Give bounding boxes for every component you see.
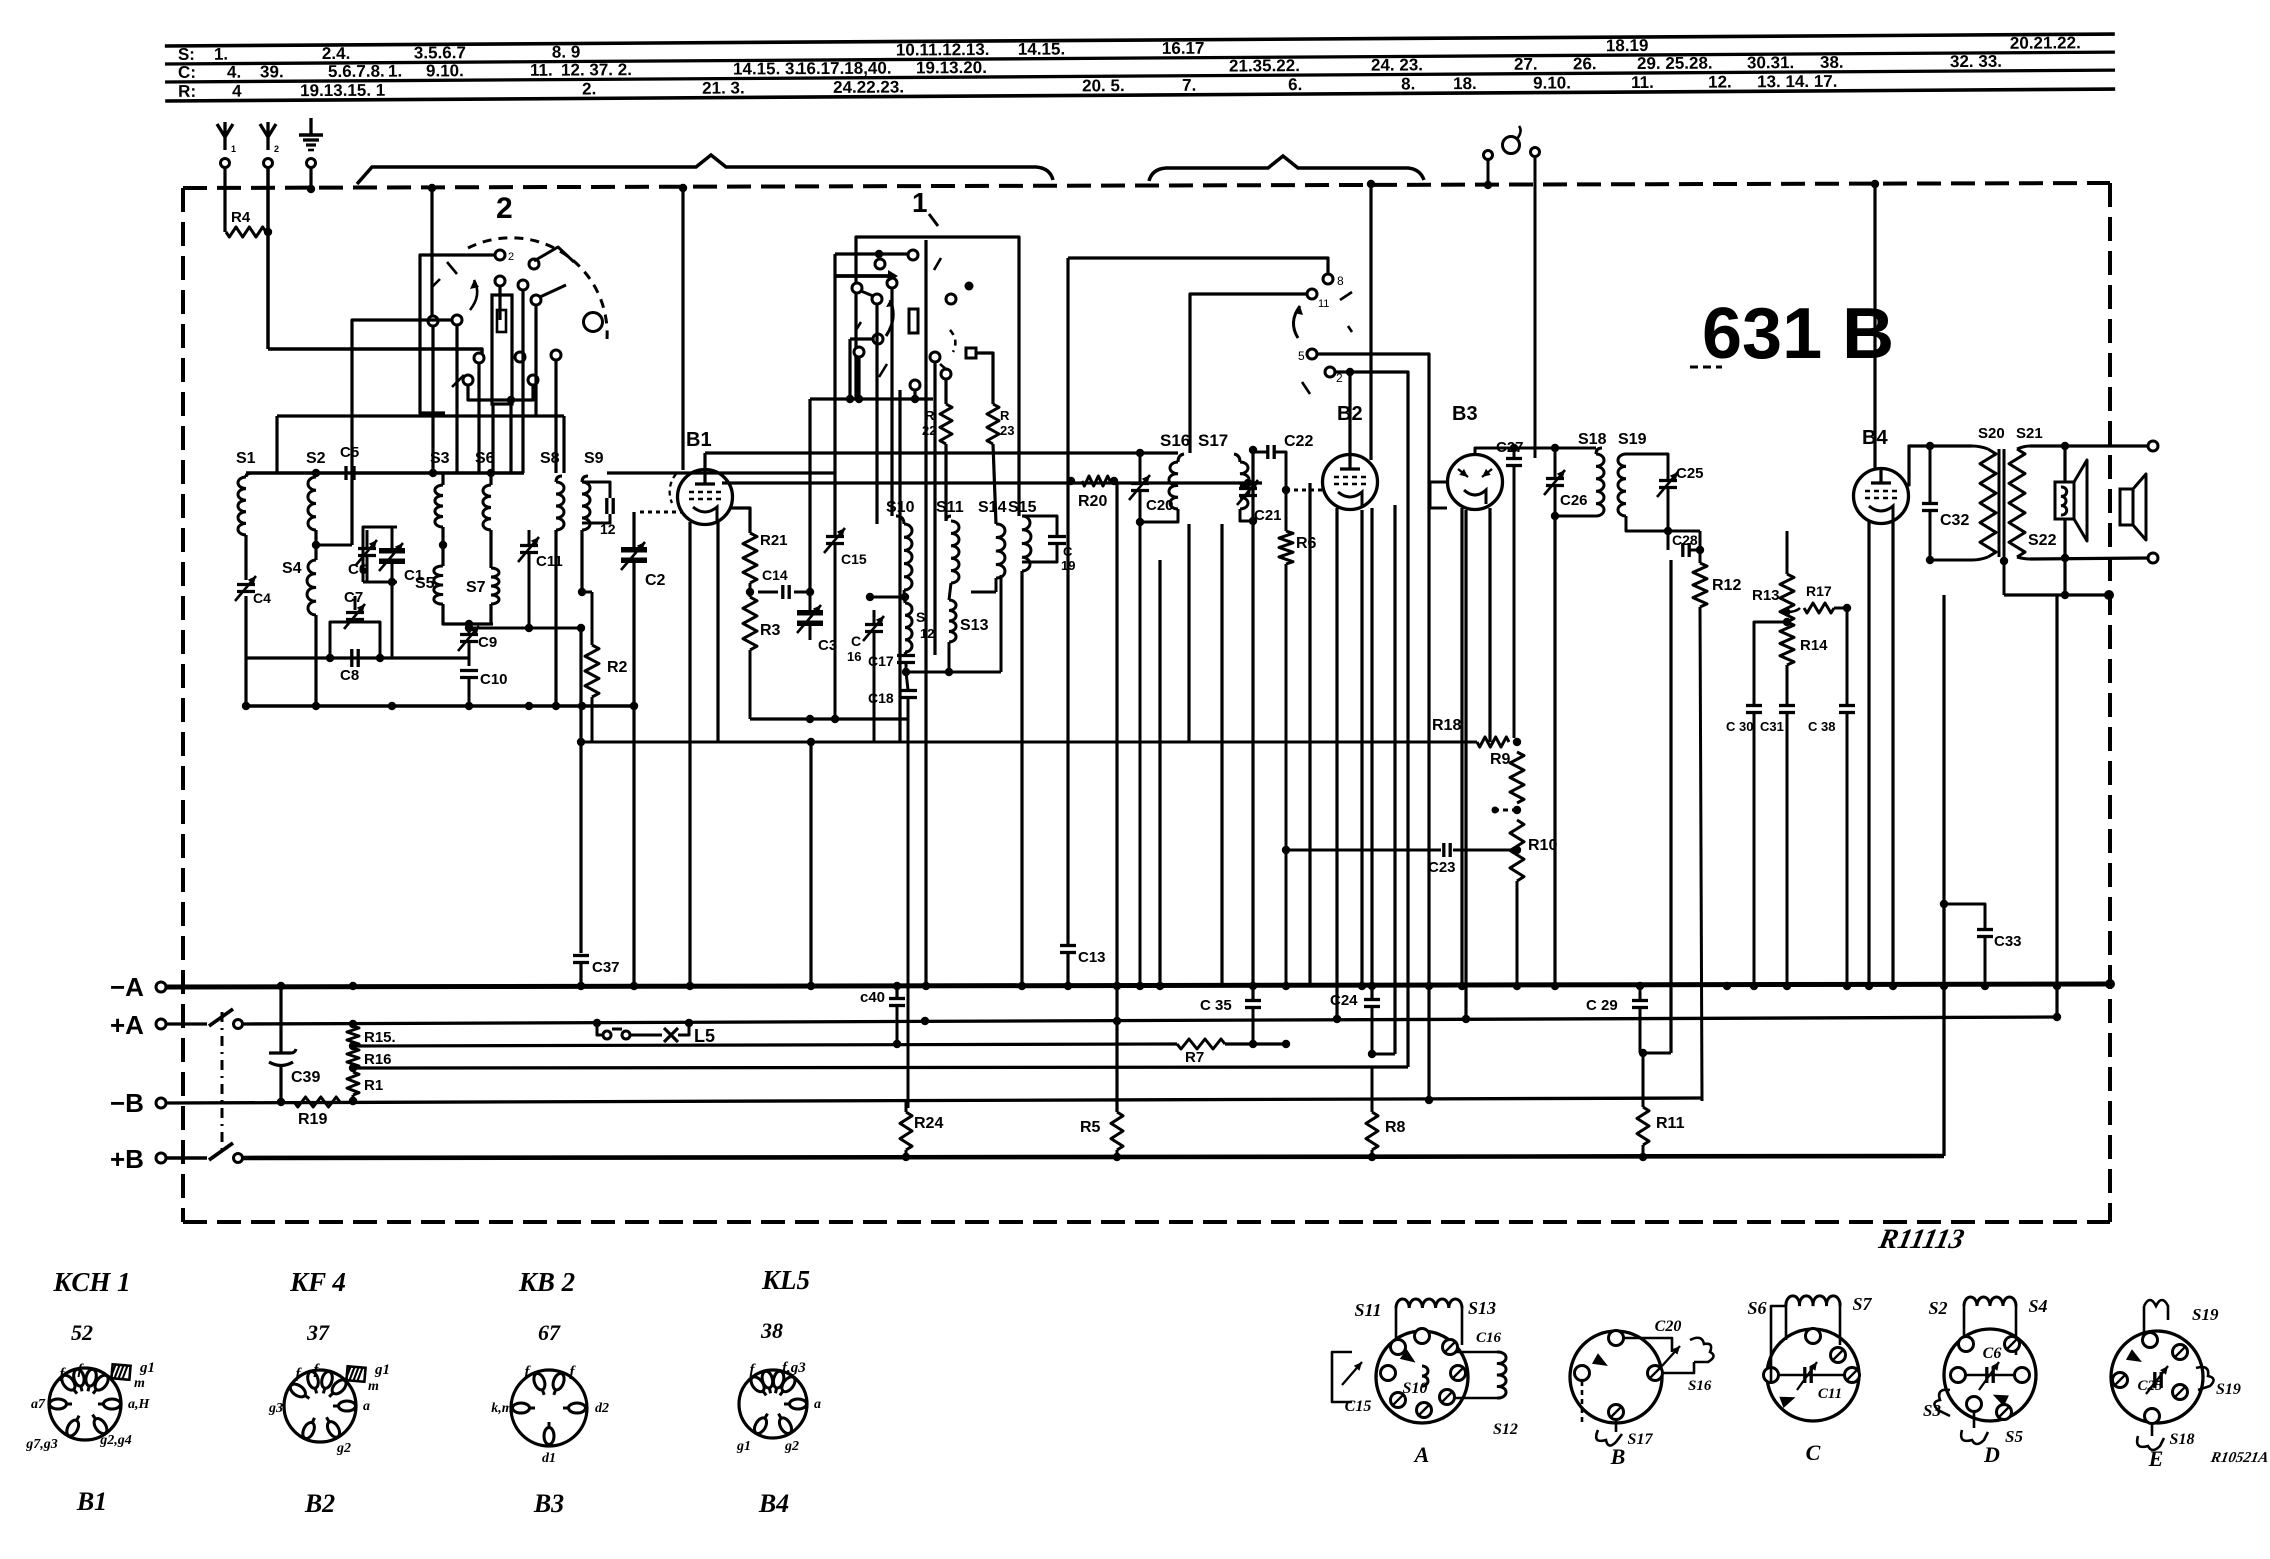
- wire y453: [705, 451, 1178, 454]
- svg-text:S4: S4: [282, 560, 302, 577]
- chassis border left: [181, 188, 185, 1222]
- svg-text:32. 33.: 32. 33.: [1950, 52, 2002, 71]
- svg-text:9.10.: 9.10.: [1533, 73, 1571, 92]
- svg-text:C6: C6: [1983, 1345, 2002, 1362]
- svg-text:38.: 38.: [1820, 53, 1844, 72]
- wire B4 anode chassis: [1873, 184, 1876, 469]
- svg-text:S5: S5: [2005, 1427, 2023, 1446]
- capacitor C33: [1942, 595, 1945, 904]
- capacitor C35: [1252, 1008, 1254, 1021]
- svg-text:19.13.15. 1: 19.13.15. 1: [300, 81, 385, 101]
- capacitor C18: [899, 689, 917, 692]
- wire sw2 g-left: [352, 320, 452, 545]
- wire sw1 drop 900: [898, 390, 901, 742]
- svg-text:C14: C14: [762, 567, 788, 583]
- switch 1 frame: [856, 237, 1019, 516]
- wire sw1 d-e arm: [861, 291, 873, 296]
- svg-text:10.11.12.13.: 10.11.12.13.: [896, 40, 990, 60]
- svg-text:R10521A: R10521A: [2209, 1450, 2270, 1466]
- svg-text:R20: R20: [1078, 493, 1107, 510]
- coil S17: [1240, 462, 1249, 509]
- wire y483 ext: [1140, 481, 1262, 484]
- wire sw2 U-link: [468, 385, 533, 400]
- svg-text:C 35: C 35: [1200, 997, 1232, 1014]
- wire sw2 box: [420, 255, 495, 413]
- capacitor C28: [1681, 543, 1684, 557]
- wire B2 grid dash: [1286, 489, 1322, 492]
- svg-text:14.15.: 14.15.: [1018, 40, 1065, 59]
- tube B2: [1323, 455, 1378, 510]
- tube B1 shield arc: [670, 474, 676, 503]
- svg-text:R5: R5: [1080, 1119, 1101, 1136]
- loudspeaker S22: [2063, 446, 2066, 595]
- wire sw2 h-drop: [477, 363, 480, 473]
- svg-text:12: 12: [600, 521, 616, 537]
- antenna Y1: [217, 122, 233, 150]
- transformer primary S20 winding: [1980, 449, 1996, 557]
- wire C2 to -A: [632, 706, 635, 985]
- switch 1 contact j: [930, 352, 940, 362]
- bus +A wire1: [166, 1022, 207, 1025]
- wire R20R5 column: [1115, 483, 1118, 1021]
- svg-text:KL5: KL5: [761, 1265, 810, 1295]
- capacitor C8 box right: [355, 622, 380, 640]
- svg-text:R17: R17: [1806, 583, 1832, 599]
- wire B2 legs: [1335, 508, 1338, 1019]
- svg-text:C31: C31: [1760, 719, 1784, 734]
- coil unit A: [1376, 1331, 1468, 1423]
- switch 2 rotor arm: [534, 247, 574, 262]
- wire S9 column: [580, 592, 582, 955]
- svg-text:R21: R21: [760, 532, 788, 549]
- coil S15: [1022, 516, 1031, 571]
- wire R15 line: [353, 1044, 1177, 1046]
- svg-text:S12: S12: [1493, 1421, 1518, 1438]
- svg-text:C9: C9: [478, 634, 497, 651]
- svg-text:a: a: [363, 1399, 370, 1414]
- svg-text:R14: R14: [1800, 637, 1828, 654]
- wire sw1 h stub: [850, 337, 872, 340]
- switch 3 arc arrow: [1293, 306, 1300, 338]
- resistor R13: [1780, 574, 1794, 622]
- switch 1 slider: [909, 309, 918, 333]
- wire sw1 c3 riser: [808, 399, 811, 592]
- svg-text:S13: S13: [960, 617, 989, 634]
- wire sw2 horiz 416: [277, 414, 537, 417]
- resistor R24: [905, 1101, 908, 1112]
- switch 2 contact b: [495, 276, 505, 286]
- svg-text:R8: R8: [1385, 1119, 1406, 1136]
- bus +B terminal: [156, 1153, 166, 1163]
- chassis border bottom: [183, 1220, 2110, 1224]
- coil S9: [582, 482, 590, 530]
- switch 3 contact 5: [1307, 349, 1317, 359]
- svg-text:18.19: 18.19: [1606, 36, 1649, 55]
- svg-text:3.5.6.7: 3.5.6.7: [414, 43, 466, 62]
- switch 2 contact h: [474, 353, 484, 363]
- coil S18: [1596, 454, 1604, 516]
- phones plug symbol: [1503, 137, 1520, 154]
- switch 2 arrow: [470, 280, 477, 310]
- capacitor C30: [1746, 704, 1762, 707]
- svg-text:g1: g1: [139, 1360, 155, 1376]
- wire R8 top: [1371, 1067, 1374, 1112]
- svg-text:S7: S7: [1852, 1294, 1872, 1314]
- switch 2 contact l: [528, 375, 538, 385]
- wire Y1 drop: [223, 167, 226, 232]
- resistor R22: [940, 404, 952, 444]
- coil unit D: [1944, 1329, 2036, 1421]
- brace section 2: [357, 155, 1053, 184]
- switch 2 dash marks: [447, 262, 457, 274]
- svg-text:S:: S:: [178, 45, 195, 64]
- junction R4-Y2: [264, 228, 272, 236]
- switch 3 contact 2: [1325, 367, 1335, 377]
- svg-text:9.10.: 9.10.: [426, 61, 464, 80]
- transformer S21: [2009, 449, 2025, 557]
- resistor R10: [1510, 820, 1524, 881]
- svg-text:30.31.: 30.31.: [1747, 53, 1794, 72]
- switch 1 junction g: [965, 282, 974, 291]
- transformer core: [1998, 449, 2001, 557]
- svg-text:R19: R19: [298, 1111, 327, 1128]
- svg-text:2.4.: 2.4.: [322, 44, 350, 63]
- svg-text:S19: S19: [2216, 1381, 2241, 1398]
- svg-text:S3: S3: [1923, 1401, 1941, 1420]
- capacitor C29: [1632, 999, 1648, 1002]
- svg-text:C15: C15: [841, 551, 867, 567]
- switch link dashed: [221, 1012, 224, 1152]
- svg-text:C18: C18: [868, 690, 894, 706]
- svg-text:21. 3.: 21. 3.: [702, 78, 745, 97]
- capacitor C13: [1066, 258, 1069, 944]
- svg-text:S1: S1: [236, 450, 256, 467]
- svg-text:S21: S21: [2016, 425, 2043, 442]
- svg-text:S18: S18: [1578, 431, 1607, 448]
- wire S4 tap: [316, 544, 352, 547]
- resistor R23: [987, 404, 999, 444]
- wire x1671: [1669, 560, 1672, 1053]
- svg-text:27.: 27.: [1514, 55, 1538, 74]
- svg-text:S9: S9: [584, 450, 604, 467]
- svg-text:7.: 7.: [1182, 76, 1196, 95]
- svg-text:a7: a7: [31, 1397, 46, 1412]
- svg-text:S6: S6: [1747, 1298, 1766, 1318]
- switch 2 shaft: [584, 313, 603, 332]
- wire R13 top: [1786, 531, 1789, 574]
- wire S6-S7: [489, 530, 492, 568]
- capacitor C7 box: [330, 622, 355, 640]
- wire B1 legs: [688, 522, 691, 985]
- resistor R15: [347, 1026, 359, 1046]
- svg-text:8.: 8.: [1401, 74, 1415, 93]
- wire C18 to R24: [906, 1098, 908, 1101]
- svg-text:−A: −A: [110, 972, 144, 1002]
- svg-text:S15: S15: [1008, 499, 1037, 516]
- resistor R4: [226, 227, 266, 237]
- svg-text:2: 2: [508, 251, 514, 263]
- wire B3 left: [1430, 482, 1447, 508]
- svg-text:c40: c40: [860, 989, 885, 1006]
- external speaker: [2119, 489, 2122, 525]
- wire x1222: [1220, 524, 1223, 985]
- wire sw2 extra2: [491, 404, 494, 473]
- svg-text:S8: S8: [540, 450, 560, 467]
- svg-text:−B: −B: [110, 1088, 144, 1118]
- svg-text:5: 5: [1298, 349, 1305, 363]
- lamp L5 branch: [597, 1024, 603, 1035]
- tube B4: [1854, 469, 1909, 524]
- bus +B wire1: [166, 1156, 207, 1160]
- svg-text:18.: 18.: [1453, 74, 1477, 93]
- switch 1 contact l: [941, 369, 951, 379]
- junction S10-S12: [901, 593, 909, 601]
- capacitor C1: [379, 548, 405, 554]
- svg-text:C39: C39: [291, 1069, 320, 1086]
- wire sw2 d-drop: [498, 286, 501, 320]
- switch 1 contact f: [946, 294, 956, 304]
- svg-text:g3: g3: [268, 1401, 283, 1416]
- wire B3 legs: [1460, 508, 1463, 985]
- svg-text:R12: R12: [1712, 577, 1741, 594]
- tube B1: [678, 470, 733, 525]
- svg-text:R: R: [1000, 408, 1010, 423]
- wire sw1 i drop: [857, 357, 860, 399]
- wire x811 drop: [809, 742, 812, 985]
- svg-text:C5: C5: [340, 444, 359, 461]
- switch 1 arrow: [886, 300, 893, 336]
- coil S7: [491, 568, 499, 604]
- svg-text:S22: S22: [2028, 532, 2057, 549]
- svg-text:1.: 1.: [214, 45, 228, 64]
- switch 2 contact d: [529, 259, 539, 269]
- resistor R3: [743, 597, 757, 650]
- wire S9-R2 link: [582, 591, 592, 594]
- wire S19 bottom: [1626, 516, 1700, 531]
- svg-text:24.22.23.: 24.22.23.: [833, 77, 904, 96]
- terminal speaker out 2: [2148, 553, 2158, 563]
- capacitor C24: [1364, 998, 1380, 1001]
- svg-text:R11113: R11113: [1875, 1224, 1966, 1255]
- svg-text:KB 2: KB 2: [518, 1267, 575, 1297]
- wire B4 cathode right: [1906, 507, 1930, 509]
- wire x1310: [1308, 483, 1311, 985]
- svg-text:C32: C32: [1940, 512, 1969, 529]
- wire sw1 y399: [810, 397, 933, 400]
- svg-text:S11: S11: [936, 499, 964, 516]
- svg-text:52: 52: [71, 1320, 93, 1345]
- bus +A: [243, 1017, 2057, 1024]
- svg-text:2: 2: [274, 144, 279, 154]
- capacitor C8: [350, 649, 353, 667]
- svg-text:4.: 4.: [227, 63, 241, 82]
- svg-text:k,m: k,m: [491, 1401, 513, 1416]
- tube B3: [1448, 455, 1503, 510]
- coil S11: [951, 521, 959, 583]
- svg-text:C21: C21: [1254, 507, 1282, 524]
- coil S2: [308, 477, 316, 530]
- svg-text:12: 12: [920, 626, 934, 641]
- svg-text:m: m: [368, 1379, 379, 1394]
- wire S3-S5: [441, 527, 444, 566]
- wire C8 junctions: [326, 654, 334, 662]
- wire sw2 c-drop: [521, 290, 524, 473]
- svg-text:R4: R4: [231, 209, 251, 226]
- svg-text:m: m: [134, 1376, 145, 1391]
- bus -A: [166, 984, 2110, 987]
- svg-text:20.21.22.: 20.21.22.: [2010, 33, 2081, 52]
- switch 1 contact i: [854, 347, 864, 357]
- svg-text:B4: B4: [758, 1489, 789, 1518]
- capacitor C12: [605, 498, 608, 514]
- svg-text:d2: d2: [595, 1401, 609, 1416]
- junction R21-C14: [746, 588, 754, 596]
- svg-text:S17: S17: [1198, 431, 1228, 450]
- svg-text:S4: S4: [2028, 1296, 2047, 1316]
- svg-text:12. 37. 2.: 12. 37. 2.: [561, 60, 632, 79]
- svg-text:d1: d1: [542, 1451, 556, 1466]
- capacitor C9: [460, 633, 478, 636]
- junction top wire S2: [312, 469, 320, 477]
- svg-text:C13: C13: [1078, 949, 1106, 966]
- coil S6: [483, 485, 491, 530]
- switch 2 contact i: [515, 352, 525, 362]
- svg-text:2.: 2.: [582, 79, 596, 98]
- bus -A terminal: [156, 982, 166, 992]
- svg-text:f,g3: f,g3: [782, 1360, 806, 1376]
- svg-text:20. 5.: 20. 5.: [1082, 76, 1125, 95]
- coil S4: [307, 560, 316, 615]
- svg-text:B2: B2: [304, 1489, 335, 1518]
- svg-text:23: 23: [1000, 423, 1014, 438]
- wire C2 bottom: [632, 563, 635, 706]
- bus -A chassis dot: [2105, 979, 2115, 989]
- svg-text:39.: 39.: [260, 62, 284, 81]
- wire sw1 y254: [835, 252, 907, 255]
- wire sw3 contact5: [1317, 354, 1429, 1101]
- wire C29 jog: [1643, 1052, 1671, 1055]
- wire sw1 horiz 473: [607, 471, 835, 474]
- coil S19: [1618, 454, 1626, 516]
- wire S21 top: [2017, 446, 2030, 449]
- wire C27 top: [1475, 448, 1514, 455]
- switch 1 contact k: [966, 348, 976, 358]
- coil unit E: [2111, 1331, 2203, 1423]
- svg-text:R24: R24: [914, 1115, 943, 1132]
- svg-text:5.6.7.8.: 5.6.7.8.: [328, 62, 385, 81]
- svg-text:g1: g1: [374, 1362, 390, 1378]
- svg-text:8: 8: [1337, 274, 1344, 288]
- junction dots on +A bus: [349, 1020, 357, 1028]
- wire S1 top: [246, 473, 252, 477]
- bus -B terminal: [156, 1098, 166, 1108]
- resistor R8: [1371, 1053, 1373, 1055]
- svg-text:R9: R9: [1490, 751, 1511, 768]
- resistor R1: [347, 1072, 359, 1095]
- wire R14 bottom: [1786, 665, 1789, 705]
- coil unit B: [1570, 1331, 1662, 1423]
- wire C1 bottom: [363, 581, 397, 584]
- svg-text:B1: B1: [76, 1487, 107, 1516]
- capacitor C37: [579, 628, 582, 953]
- svg-text:16: 16: [847, 649, 861, 664]
- resistor R19: [270, 1101, 292, 1103]
- phones terminal 2: [1531, 148, 1540, 157]
- wire coil bank bottom: [246, 704, 634, 708]
- svg-text:g2,g4: g2,g4: [99, 1433, 132, 1448]
- svg-text:11: 11: [1318, 298, 1329, 310]
- svg-text:4: 4: [232, 82, 242, 101]
- svg-text:C: C: [851, 633, 861, 649]
- wire S5-S7 bottoms: [443, 604, 493, 624]
- wire y719: [750, 717, 908, 720]
- switch 1 contact b: [875, 259, 885, 269]
- switch 2 wafer: [492, 295, 512, 404]
- resistor R6: [1285, 462, 1288, 531]
- wire R7 up: [1282, 1040, 1290, 1048]
- resistor R2: [591, 592, 594, 645]
- transformer S20: [1972, 446, 1988, 449]
- wire y448 to S18: [1514, 447, 1596, 450]
- svg-text:11.: 11.: [530, 61, 553, 80]
- resistor R21: [743, 533, 757, 583]
- svg-text:14.15. 3.: 14.15. 3.: [733, 59, 799, 78]
- svg-text:S10: S10: [1403, 1380, 1428, 1397]
- wire c8 bus: [246, 656, 469, 659]
- svg-text:S3: S3: [430, 450, 450, 467]
- wire R16 line: [353, 1067, 1408, 1068]
- wire S20 bottom: [1972, 557, 1988, 560]
- resistor R20: [1082, 476, 1110, 486]
- capacitor C11 trimmer: [520, 544, 538, 547]
- svg-text:S18: S18: [2170, 1431, 2195, 1448]
- svg-text:E: E: [2148, 1446, 2164, 1471]
- svg-text:S: S: [916, 609, 925, 625]
- junction dots on -A bus: [277, 982, 285, 990]
- resistor R7: [1177, 1039, 1225, 1049]
- coil S1: [238, 477, 246, 535]
- wire coil bank top: [246, 471, 524, 475]
- svg-text:L5: L5: [694, 1026, 715, 1046]
- coil S3: [435, 485, 443, 527]
- svg-text:13. 14. 17.: 13. 14. 17.: [1757, 72, 1837, 91]
- capacitor C22: [1266, 445, 1269, 459]
- capacitor C15 trimmer: [826, 535, 844, 538]
- svg-text:11.: 11.: [1631, 73, 1654, 92]
- resistor R9: [1510, 752, 1524, 803]
- svg-text:2: 2: [496, 192, 513, 225]
- wire S16 bottom: [1140, 509, 1178, 522]
- resistor R9 tap: [1495, 809, 1517, 812]
- switch 2 contact g: [452, 315, 462, 325]
- switch 2 contact j: [551, 350, 561, 360]
- svg-text:R18: R18: [1432, 717, 1461, 734]
- svg-text:37: 37: [306, 1320, 330, 1345]
- svg-text:R6: R6: [1296, 535, 1317, 552]
- svg-text:KCH 1: KCH 1: [52, 1267, 130, 1297]
- wire B2 chassis drop: [1369, 184, 1372, 460]
- wire speaker bottom link: [2064, 558, 2066, 595]
- wire S2-S4: [314, 530, 317, 560]
- wire sw3 contact2: [1335, 372, 1408, 1067]
- bus +B: [243, 1156, 1944, 1158]
- svg-text:C16: C16: [1476, 1330, 1502, 1346]
- svg-text:A: A: [1413, 1442, 1430, 1467]
- svg-text:S11: S11: [1354, 1300, 1381, 1320]
- capacitor C1 box: [363, 527, 397, 582]
- switch 2 contact c: [518, 280, 528, 290]
- wire B2 anode up: [1348, 372, 1351, 455]
